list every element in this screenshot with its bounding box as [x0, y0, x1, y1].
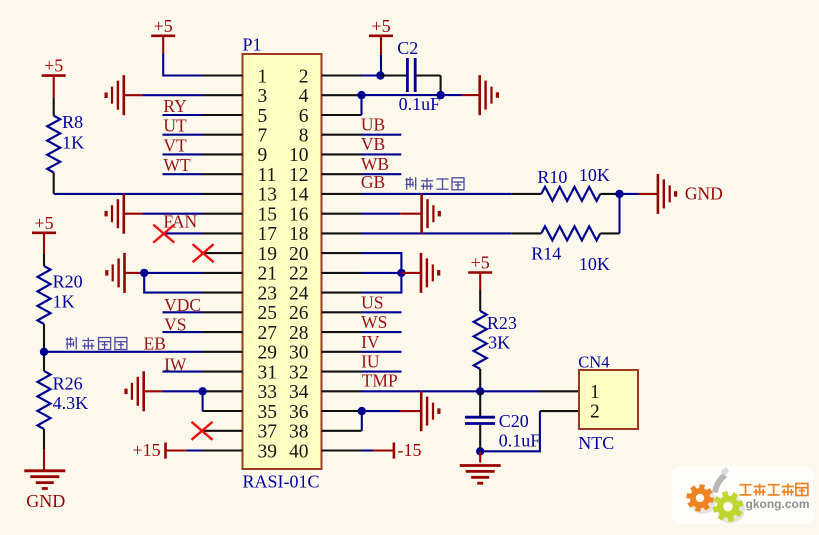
- svg-text:R26: R26: [53, 373, 83, 393]
- svg-text:C20: C20: [499, 411, 529, 431]
- power ground at P1 pins 21,23: [107, 253, 140, 293]
- svg-text:P1: P1: [243, 35, 262, 55]
- power ground at P1 pins 20,22,24: [401, 253, 438, 293]
- wire pin 34 to R23 junction: [362, 390, 481, 392]
- power ground (C2 net): [462, 75, 497, 115]
- svg-text:+5: +5: [471, 253, 490, 273]
- wire +15 to pin 39: [186, 449, 202, 451]
- svg-text:5: 5: [258, 106, 268, 127]
- power +5 symbol (C2 net): [369, 16, 393, 55]
- svg-text:+5: +5: [34, 213, 53, 233]
- svg-text:26: 26: [289, 303, 309, 324]
- wire pin 4 down to pin 6: [360, 95, 362, 115]
- svg-text:17: 17: [258, 224, 278, 245]
- wire pin 16 to ground: [362, 213, 401, 215]
- power +5 symbol (R20): [32, 213, 56, 254]
- svg-text:14: 14: [289, 185, 309, 206]
- svg-text:24: 24: [289, 283, 309, 304]
- wire net WS: [362, 331, 402, 333]
- svg-text:31: 31: [258, 362, 278, 383]
- wire stem to earth ground: [43, 449, 45, 470]
- wire pin 36 down to pin 38: [361, 411, 363, 431]
- svg-text:C2: C2: [397, 38, 418, 58]
- svg-text:gkong.com: gkong.com: [746, 497, 810, 511]
- wire junction to CN4 pin 1: [480, 390, 539, 392]
- power -15 symbol: [373, 440, 422, 460]
- svg-text:1K: 1K: [53, 291, 75, 311]
- svg-text:37: 37: [258, 422, 278, 443]
- svg-text:1: 1: [258, 66, 268, 87]
- no-connect X on pin 19: [193, 244, 214, 262]
- svg-text:29: 29: [258, 343, 278, 364]
- resistor R23: [474, 290, 487, 391]
- wire R8 to pin 13: [54, 193, 203, 195]
- wire +5 down to pin 2: [380, 55, 382, 76]
- junction pin 4 branch: [357, 91, 365, 99]
- wire +5 to pin 1: [163, 53, 202, 75]
- svg-text:1K: 1K: [62, 133, 84, 153]
- svg-text:20: 20: [289, 244, 309, 265]
- capacitor C20: [465, 391, 495, 451]
- svg-text:10: 10: [289, 145, 309, 166]
- svg-text:RY: RY: [163, 96, 187, 116]
- svg-text:+5: +5: [44, 56, 63, 76]
- connector CN4 pin stubs: [539, 391, 579, 411]
- resistor R26: [38, 352, 51, 449]
- svg-text:23: 23: [258, 283, 278, 304]
- chinese net label 制动检测: [66, 337, 127, 350]
- svg-text:UT: UT: [163, 116, 187, 136]
- wire pin 14 to R10: [362, 193, 512, 195]
- svg-text:US: US: [361, 293, 383, 313]
- P1 pin numbers: [258, 66, 309, 462]
- power ground at P1 pins 33,35: [126, 371, 162, 411]
- svg-text:IV: IV: [361, 332, 380, 352]
- svg-text:R14: R14: [531, 244, 561, 264]
- power ground at P1 pin 3: [106, 75, 142, 115]
- junction pins 21/23: [140, 269, 148, 277]
- svg-text:UB: UB: [361, 115, 385, 135]
- junction pin 2 / +5 / C2: [376, 71, 384, 79]
- resistor R20: [38, 254, 51, 352]
- connector CN4 body: [579, 370, 638, 429]
- wire pin 18 to R14: [362, 232, 512, 234]
- P1 right pin stubs (pins 2-40 even): [322, 76, 362, 451]
- junction pins 33/35: [198, 387, 206, 395]
- earth ground (under C20): [460, 466, 501, 484]
- svg-text:39: 39: [258, 441, 278, 462]
- watermark gkong.com logo: [672, 466, 813, 524]
- wire junction to GND symbol: [620, 193, 639, 195]
- wire ground to pin 3: [142, 94, 202, 96]
- svg-text:10K: 10K: [579, 165, 610, 185]
- junction pins 36/38: [358, 407, 366, 415]
- resistor R8: [47, 98, 60, 194]
- wire junction down to pin 23: [144, 273, 202, 293]
- svg-text:9: 9: [258, 145, 268, 166]
- svg-text:0.1uF: 0.1uF: [499, 431, 541, 451]
- svg-text:15: 15: [258, 205, 278, 226]
- power ground at P1 pins 36,38: [400, 391, 439, 431]
- wire net IW (pin 31): [163, 371, 203, 373]
- junction C20 bottom: [476, 447, 484, 455]
- svg-text:0.1uF: 0.1uF: [399, 94, 441, 114]
- svg-text:R20: R20: [53, 271, 83, 291]
- svg-text:16: 16: [289, 205, 309, 226]
- svg-text:+5: +5: [154, 16, 173, 36]
- power +15 symbol: [133, 440, 187, 460]
- wire CN4 pin 2 return: [480, 411, 540, 451]
- svg-text:38: 38: [289, 422, 309, 443]
- svg-text:27: 27: [258, 323, 278, 344]
- svg-text:IU: IU: [361, 352, 380, 372]
- wire net IU: [362, 371, 402, 373]
- wire pin 2 to C2: [362, 74, 381, 76]
- junction pins 20/22/24: [397, 269, 405, 277]
- svg-text:6: 6: [299, 106, 309, 127]
- power ground GND (right): [639, 174, 676, 214]
- wire net VDC (pin 25): [163, 311, 203, 313]
- svg-text:36: 36: [289, 402, 309, 423]
- svg-text:1: 1: [590, 382, 600, 403]
- svg-text:25: 25: [258, 303, 278, 324]
- wire net WT: [163, 173, 203, 175]
- svg-text:+5: +5: [371, 16, 390, 36]
- svg-text:VT: VT: [163, 135, 187, 155]
- wire junction down to pin 35: [202, 391, 204, 411]
- svg-text:-15: -15: [398, 440, 422, 460]
- wire to ground (C2 net): [441, 94, 463, 96]
- wire to earth ground (C20): [479, 451, 481, 462]
- svg-text:10K: 10K: [579, 254, 610, 274]
- connector P1 body: [243, 54, 322, 469]
- wire R14 up to junction: [618, 194, 620, 234]
- svg-text:35: 35: [258, 402, 278, 423]
- svg-text:4: 4: [299, 86, 309, 107]
- resistor R10: [512, 187, 620, 201]
- earth ground GND (bottom left): [24, 471, 65, 489]
- svg-text:12: 12: [289, 165, 309, 186]
- svg-text:33: 33: [258, 382, 278, 403]
- junction C2 right / ground: [436, 91, 444, 99]
- wire pin 40 to -15: [362, 449, 374, 451]
- wire ground to pin 33: [162, 390, 202, 392]
- no-connect X on FAN wire: [153, 225, 174, 243]
- power ground at P1 pin 16: [400, 194, 439, 234]
- svg-text:EB: EB: [144, 333, 166, 353]
- svg-text:13: 13: [258, 185, 278, 206]
- svg-text:40: 40: [289, 441, 309, 462]
- power +5 symbol (R23): [468, 253, 492, 291]
- junction R23/C20/pin34/CN4: [476, 387, 484, 395]
- chinese net label 制动下臂: [406, 177, 465, 190]
- svg-text:11: 11: [258, 165, 277, 186]
- svg-text:VB: VB: [361, 134, 385, 154]
- svg-text:2: 2: [299, 66, 309, 87]
- no-connect X on pin 37: [192, 422, 213, 440]
- wire ground to pin 21: [140, 272, 203, 274]
- svg-text:RASI-01C: RASI-01C: [243, 472, 320, 492]
- svg-text:8: 8: [299, 126, 309, 147]
- P1 left pin stubs (pins 1-39 odd): [203, 76, 243, 451]
- wire pin 24 branch: [362, 273, 402, 293]
- wire net VB: [362, 153, 402, 155]
- wire net VT: [163, 153, 203, 155]
- power +5 symbol (R8): [42, 56, 66, 98]
- wire net US: [362, 311, 402, 313]
- wire net UB: [362, 134, 402, 136]
- svg-text:7: 7: [258, 126, 268, 147]
- svg-text:18: 18: [289, 224, 309, 245]
- power ground at P1 pin 15: [106, 194, 142, 234]
- wire net UT: [163, 134, 203, 136]
- svg-text:GND: GND: [26, 491, 65, 511]
- wire divider tap to pin 29 (EB): [44, 351, 203, 353]
- svg-text:19: 19: [258, 244, 278, 265]
- wire ground to pin 15: [142, 213, 202, 215]
- svg-text:R10: R10: [537, 167, 567, 187]
- svg-text:+15: +15: [133, 440, 161, 460]
- wire pin 20 branch: [362, 253, 402, 273]
- wire net RY: [163, 114, 203, 116]
- resistor R14: [512, 226, 620, 240]
- svg-text:GND: GND: [685, 184, 723, 204]
- svg-text:GB: GB: [361, 172, 385, 192]
- svg-text:4.3K: 4.3K: [53, 393, 89, 413]
- wire pin 22 to junction: [362, 272, 402, 274]
- svg-text:28: 28: [289, 323, 309, 344]
- svg-text:2: 2: [590, 402, 600, 423]
- svg-text:22: 22: [289, 264, 309, 285]
- svg-text:3K: 3K: [488, 333, 510, 353]
- wire net FAN (pin 17): [163, 232, 203, 234]
- svg-text:34: 34: [289, 382, 309, 403]
- svg-text:TMP: TMP: [362, 371, 398, 391]
- svg-text:21: 21: [258, 264, 278, 285]
- svg-text:NTC: NTC: [578, 433, 614, 453]
- wire net IV: [362, 351, 402, 353]
- wire pin 36 to ground: [362, 410, 401, 412]
- wire net VS (pin 27): [163, 331, 203, 333]
- svg-text:WT: WT: [163, 155, 191, 175]
- svg-text:32: 32: [289, 362, 309, 383]
- svg-text:3: 3: [258, 86, 268, 107]
- wire net WB: [362, 173, 402, 175]
- svg-text:WS: WS: [361, 312, 387, 332]
- junction R20/R26/EB: [40, 348, 48, 356]
- svg-text:CN4: CN4: [578, 353, 609, 372]
- svg-text:30: 30: [289, 343, 309, 364]
- svg-text:R23: R23: [487, 313, 517, 333]
- junction R10/R14/GND: [615, 190, 623, 198]
- power +5 symbol (net to P1 pin 1): [151, 16, 175, 54]
- svg-text:R8: R8: [62, 112, 83, 132]
- capacitor C2: [380, 58, 440, 95]
- wire pin 4 row net: [362, 94, 441, 96]
